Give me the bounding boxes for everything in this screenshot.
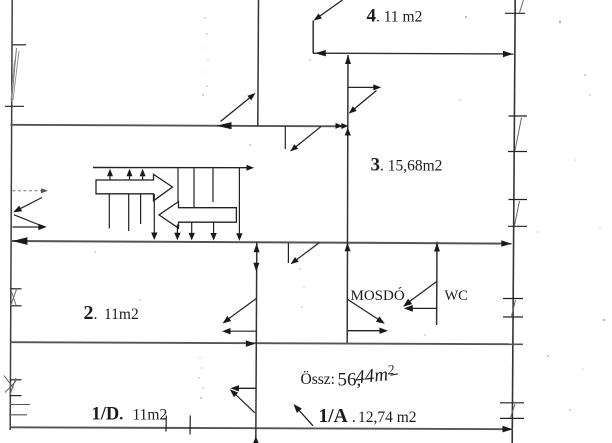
arrow: left head of WC leaf xyxy=(404,305,413,312)
window: right wall (y=298-317) xyxy=(503,299,523,318)
arrow: dashed opening arrow on left wall xyxy=(13,188,49,193)
mark: tick x=166 on bottom wall xyxy=(165,416,167,432)
stairs: down arrow at x=191.7 xyxy=(189,223,195,241)
stairs: tread line below big arrow 3 xyxy=(140,195,142,225)
arrow: left head main wall y=241 at left end xyxy=(12,237,27,245)
scan noise speckles xyxy=(94,16,605,411)
arrow: up-down dimension pair on x=256 wall below y=241 xyxy=(253,243,259,272)
stairs: tread line upper right 1 xyxy=(177,168,179,201)
svg-text:44m: 44m xyxy=(354,364,389,388)
svg-text:3. 15,68m2: 3. 15,68m2 xyxy=(371,155,443,176)
door: left wall leaf diagonal lower xyxy=(14,215,42,226)
door: room 3 door leaf y=87 xyxy=(348,86,378,88)
door: jamb tick x=285 below y=126 xyxy=(284,126,286,149)
arrow: up head on x=347.5 wall below y=241 wall xyxy=(345,243,351,252)
stairs: big up-run arrow (outlined, pointing right) xyxy=(96,174,173,201)
window: left wall lower (y=380-396) with scribbles xyxy=(4,376,30,415)
label: Ossz total xyxy=(301,371,335,388)
stairs: tread line upper right 3 xyxy=(212,168,214,202)
window: right wall (y=199-226) xyxy=(508,200,527,227)
door: left wall swing diagonal upper xyxy=(16,198,42,211)
arrow: left head of room4 dimension xyxy=(315,50,326,56)
arrow: right head of room4 dimension xyxy=(503,51,513,57)
label: room 2 area xyxy=(84,302,139,324)
stairs: up-arrow tread 2 xyxy=(127,169,133,181)
window: left wall middle (y=289-306) xyxy=(11,288,22,306)
svg-text:11m2: 11m2 xyxy=(104,306,139,323)
arrow: right head bottom wall y=429 at right wall xyxy=(503,426,513,433)
door: room 2 leaf horizontal xyxy=(227,330,257,332)
arrow: head of that swing xyxy=(247,93,255,100)
arrow: left head of 1/A leaf xyxy=(230,385,239,391)
svg-text:1/D.: 1/D. xyxy=(92,405,124,425)
arrow: up head on x=347.5 wall below y=53 line xyxy=(345,55,351,64)
stairs: up-arrow tread 1 xyxy=(107,169,113,181)
window: left wall upper (y=45-106) xyxy=(5,45,26,107)
arrow: small up head at bottom of x=256 wall (image edge) xyxy=(253,437,259,443)
arrow: head at wall of upper diagonal xyxy=(13,206,22,213)
window: right wall (y=116-152) xyxy=(508,116,527,152)
arrow: right head on y=343 wall at x=255 xyxy=(246,340,256,347)
wall: vertical wall x=347.5 (room 3 left / MOSDO left) xyxy=(346,55,349,343)
label: room 3 area xyxy=(371,155,443,176)
label: handwritten 56,44m2 xyxy=(338,362,399,391)
arrow: double right heads at end of y=126 wall xyxy=(336,123,349,129)
arrow: head of room2 swing xyxy=(223,316,232,324)
label: MOSDO xyxy=(351,287,405,304)
arrow: head of room4 door swing xyxy=(314,14,322,21)
arrow: head of that swing xyxy=(291,257,299,264)
door: 1/A leaf horizontal xyxy=(235,387,256,389)
wall: vertical wall x=256 (rooms 2 / 1D right wall) xyxy=(255,242,258,443)
door: MOSDO swing diagonal xyxy=(348,300,382,322)
wall: vertical wall x=258 (top section) xyxy=(257,0,260,126)
arrow: left head of room2 leaf xyxy=(222,328,231,334)
door: 1/A swing diagonal xyxy=(233,392,255,413)
window: right wall (y=402-418) xyxy=(500,403,524,419)
arrow: up head on x=347.5 wall below y=126 junction xyxy=(345,128,351,136)
door: MOSDO leaf horizontal xyxy=(348,330,384,332)
label: WC xyxy=(445,288,468,304)
stairs: long down arrow at x=239.4 xyxy=(236,168,242,241)
arrow: head of MOSDO swing xyxy=(376,316,385,323)
stairs: top edge line with right arrow xyxy=(93,165,254,171)
door: jamb tick x=288 below y=241 xyxy=(287,243,289,263)
stairs: tread line below big arrow 2 xyxy=(128,195,130,232)
stairs: up-arrow tread 3 xyxy=(140,169,146,181)
wall: main middle wall y=241 xyxy=(11,241,512,244)
mark: tick x=190 on bottom wall xyxy=(189,416,191,435)
wall: bottom wall y=428 xyxy=(11,427,514,429)
door: WC leaf horizontal xyxy=(409,307,438,309)
arrow: head of room3 door leaf xyxy=(373,84,381,90)
label: room 1/A xyxy=(319,406,417,427)
svg-text:2.: 2. xyxy=(84,302,98,324)
arrow: pointer next to 1/A label xyxy=(293,404,313,426)
arrow: head of 1/A swing xyxy=(230,389,238,397)
door: WC swing diagonal xyxy=(408,282,437,304)
svg-text:11m2: 11m2 xyxy=(133,407,168,424)
label: room 1/D xyxy=(92,405,168,425)
svg-text:Össz:: Össz: xyxy=(301,371,335,388)
arrow: head of room3 door swing xyxy=(349,106,357,113)
stairs: down arrow at x=177.4 xyxy=(174,225,180,241)
door: room 4 top door swing diagonal xyxy=(315,0,343,20)
arrow: left head on y=126 wall at x=217 xyxy=(217,122,232,129)
wall: right exterior wall xyxy=(512,0,515,443)
arrow: head of that swing xyxy=(290,144,298,151)
arrow: right head of left-wall leaf xyxy=(38,224,47,230)
svg-text:WC: WC xyxy=(445,288,468,304)
wall: WC partition x=437 xyxy=(436,242,438,325)
door: swing diagonal up-right to x=258 wall xyxy=(221,96,253,122)
wall: horizontal wall y=126 (top of stair hall) xyxy=(11,125,346,127)
arrow: right head of MOSDO leaf xyxy=(380,328,389,334)
arrow: up head on WC partition below y=241 xyxy=(434,243,440,252)
svg-text:12,74 m2: 12,74 m2 xyxy=(358,409,417,426)
stairs: tread line upper right 2 xyxy=(193,168,195,207)
svg-text:1/A .: 1/A . xyxy=(319,406,356,427)
stairs: down arrow at x=154.5 xyxy=(151,194,157,240)
door: room 3 door swing diagonal xyxy=(351,91,377,113)
stairs: big down-run arrow (outlined, pointing left) xyxy=(159,202,236,229)
door: room 2 swing diagonal xyxy=(226,299,257,322)
arrow: head of WC swing xyxy=(403,299,412,307)
wall: door jamb x=313 below room4 top door xyxy=(312,21,314,54)
window: right wall top (y=13) xyxy=(505,0,525,13)
stairs: tread line below big arrow 1 xyxy=(108,195,110,229)
door: swing diagonal from (321,126.5) xyxy=(293,127,322,150)
stairs: down arrow at x=213.6 xyxy=(210,223,216,241)
wall: left exterior wall xyxy=(10,0,12,430)
door: left wall leaf horizontal xyxy=(13,226,41,228)
svg-text:MOSDÓ: MOSDÓ xyxy=(351,287,405,304)
svg-text:4. 11 m2: 4. 11 m2 xyxy=(367,6,423,27)
wall: room 4 bottom wall / dimension line y=53 xyxy=(313,52,514,55)
label: room 4 area xyxy=(367,6,423,27)
arrow: right head main wall y=241 at right wall xyxy=(501,240,511,247)
wall: wall y=343 (bottom of room 2 / corridor) xyxy=(11,342,524,344)
door: swing diagonal from (319.5,242.5) xyxy=(294,243,320,263)
